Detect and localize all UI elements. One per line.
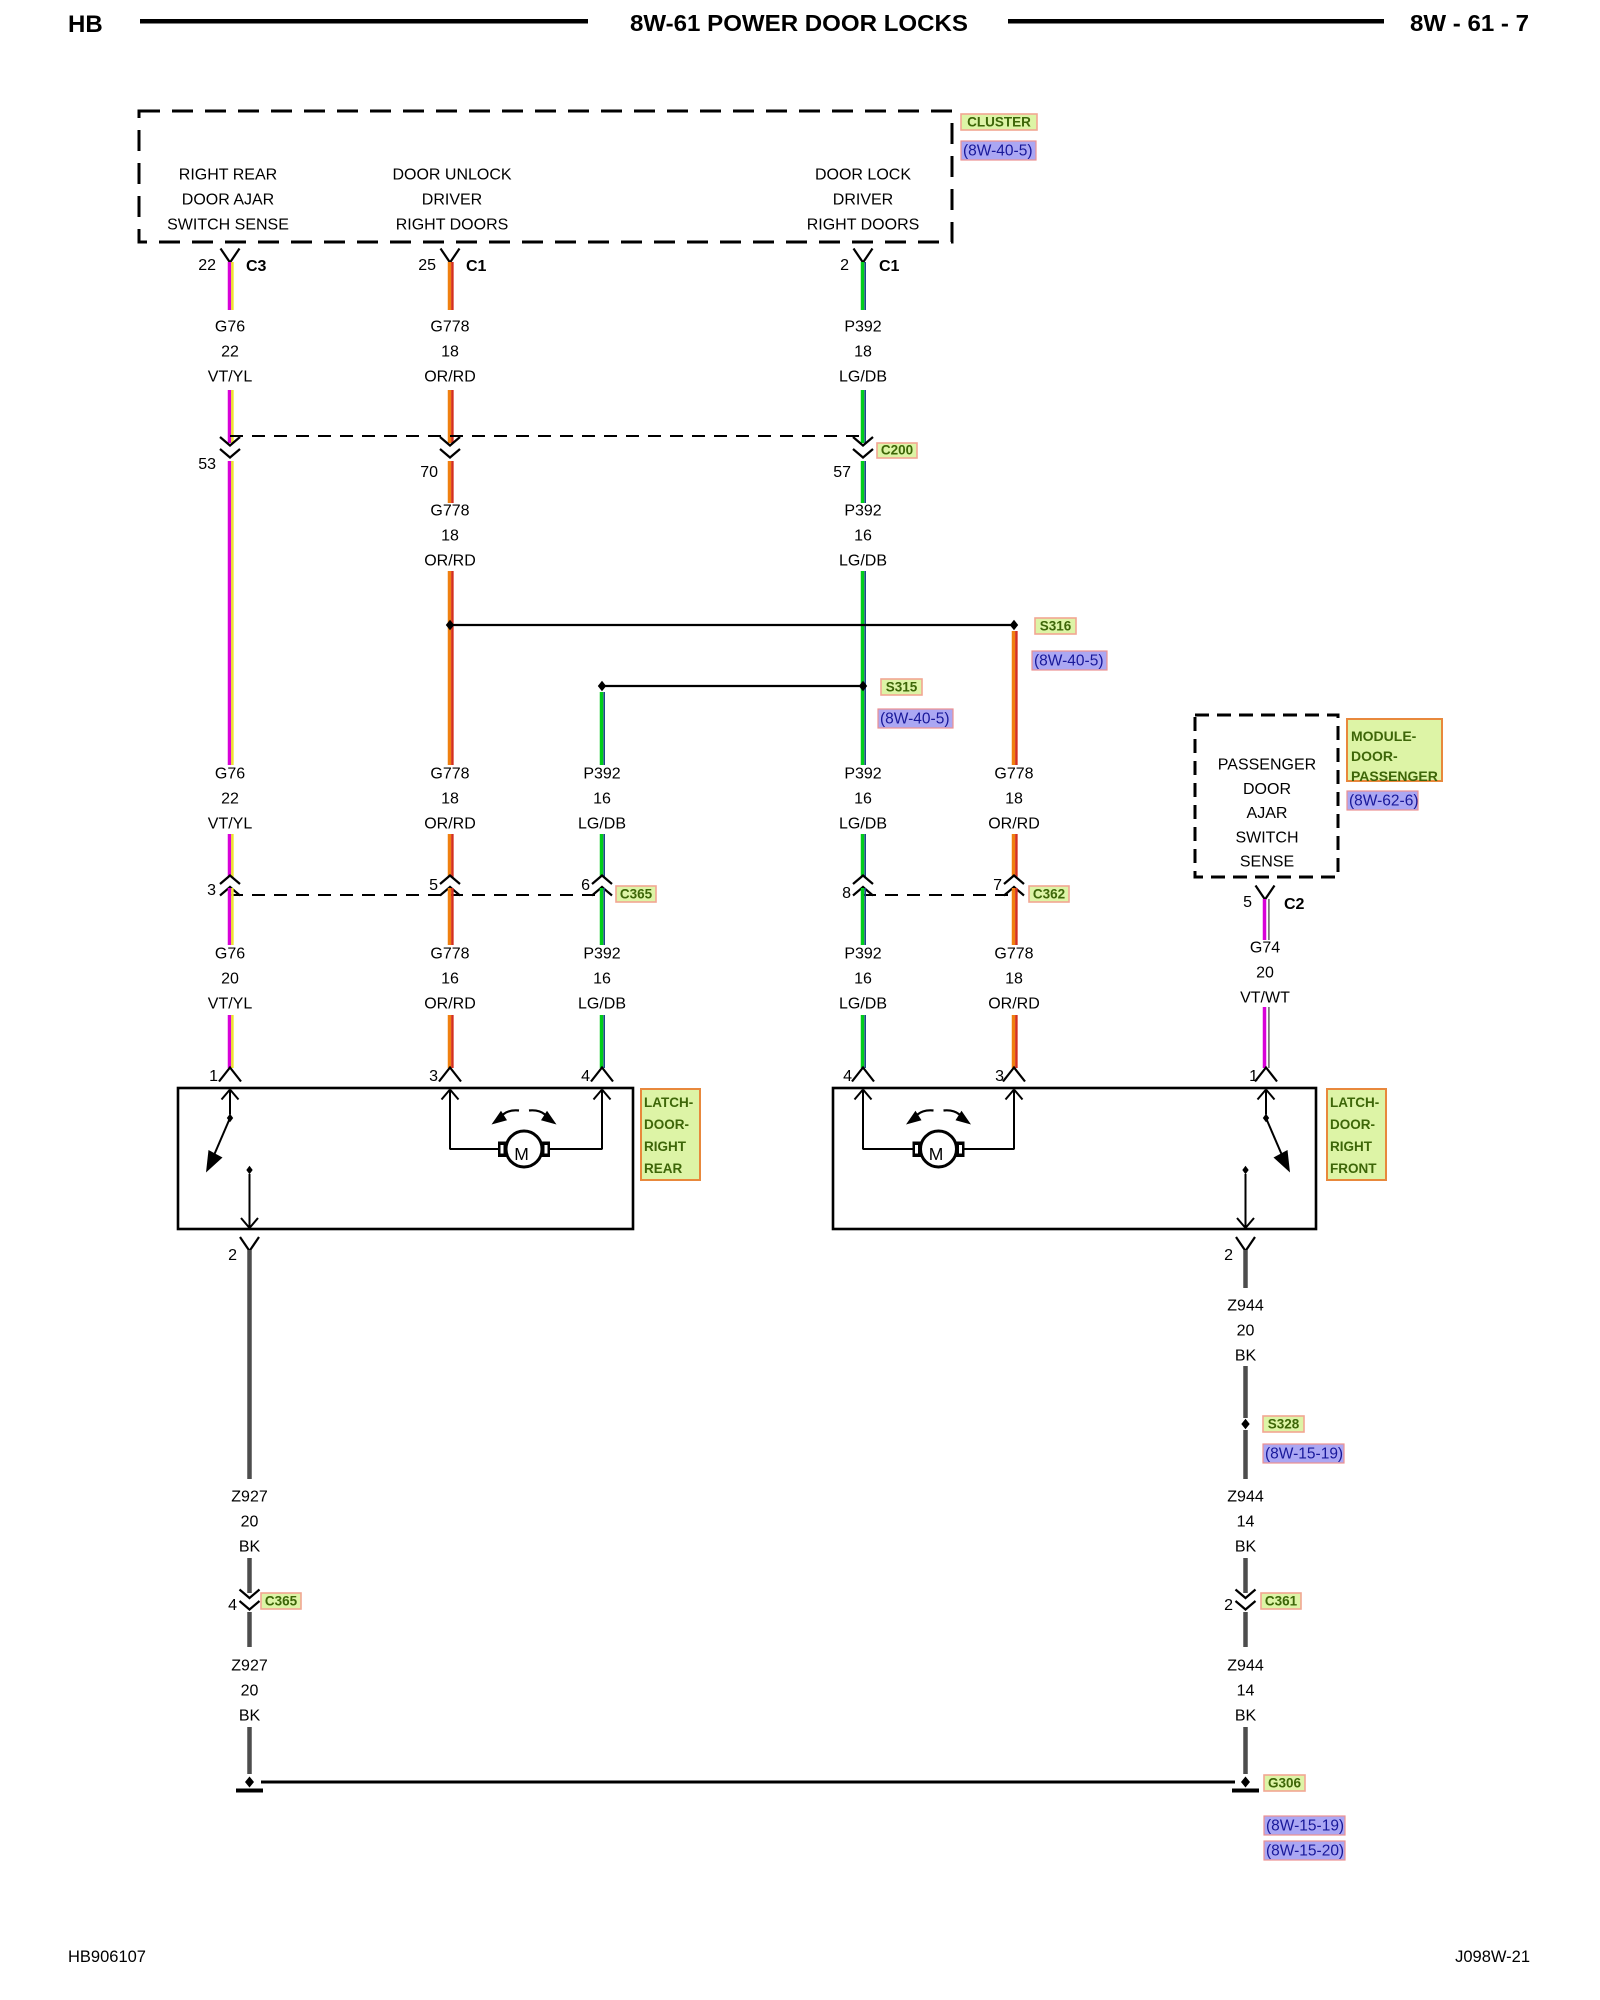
latch front pin 4 symbol bbox=[843, 1068, 874, 1086]
svg-text:OR/RD: OR/RD bbox=[424, 369, 476, 386]
wire G778 OR/RD to latch pin 3 right bbox=[1014, 1015, 1017, 1068]
wire G778 OR/RD below C365 bbox=[450, 888, 453, 945]
svg-text:Z944: Z944 bbox=[1227, 1658, 1264, 1675]
svg-text:S315: S315 bbox=[886, 680, 918, 695]
svg-text:C3: C3 bbox=[246, 258, 267, 275]
footer sheet code HB906107 bbox=[68, 1948, 146, 1966]
svg-text:C2: C2 bbox=[1284, 896, 1305, 913]
wire P392 LG/DB below C365 bbox=[602, 888, 605, 945]
svg-text:8W-61 POWER DOOR LOCKS: 8W-61 POWER DOOR LOCKS bbox=[630, 10, 968, 36]
svg-text:8W - 61 - 7: 8W - 61 - 7 bbox=[1410, 10, 1529, 36]
svg-text:DOOR-: DOOR- bbox=[1330, 1117, 1375, 1132]
connector C361 pin 2 symbol bbox=[1224, 1590, 1255, 1615]
wire label G74 20 VT/WT bbox=[1240, 940, 1290, 1007]
footer drawing number J098W-21 bbox=[1455, 1948, 1530, 1966]
svg-text:3: 3 bbox=[207, 882, 216, 899]
svg-text:S316: S316 bbox=[1040, 619, 1072, 634]
svg-text:J098W-21: J098W-21 bbox=[1455, 1948, 1530, 1966]
wire G778 OR/RD segment to C362 bbox=[1014, 834, 1017, 877]
wire Z944 14 BK to ground bbox=[1243, 1727, 1248, 1774]
splice S316 junction diamond left bbox=[446, 620, 454, 630]
svg-text:(8W-62-6): (8W-62-6) bbox=[1349, 793, 1418, 810]
svg-text:(8W-15-19): (8W-15-19) bbox=[1266, 1818, 1344, 1835]
svg-text:HB906107: HB906107 bbox=[68, 1948, 146, 1966]
wire G76 VT/YL to latch pin 1 bbox=[230, 1015, 233, 1068]
svg-text:G778: G778 bbox=[430, 503, 469, 520]
svg-text:AJAR: AJAR bbox=[1247, 805, 1288, 822]
wire P392 LG/DB segment to C365 bbox=[602, 834, 605, 877]
svg-text:3: 3 bbox=[995, 1068, 1004, 1085]
wire Z944 20 BK from latch front pin 2 bbox=[1243, 1250, 1248, 1288]
wire label Z944 14 BK lower bbox=[1227, 1658, 1264, 1725]
svg-text:RIGHT DOORS: RIGHT DOORS bbox=[396, 217, 509, 234]
component box LATCH-DOOR-RIGHT REAR bbox=[178, 1088, 633, 1229]
connector C362 pin 7 symbol bbox=[993, 876, 1024, 896]
svg-text:PASSENGER: PASSENGER bbox=[1351, 768, 1438, 784]
wire label G778 18 OR/RD row3 branch bbox=[988, 766, 1040, 833]
svg-text:2: 2 bbox=[1224, 1247, 1233, 1264]
label C362 bbox=[1029, 886, 1069, 902]
splice S328 junction diamond bbox=[1241, 1419, 1249, 1429]
svg-text:P392: P392 bbox=[583, 946, 620, 963]
svg-text:M: M bbox=[929, 1144, 944, 1164]
wire G76 22 VT/YL segment from C3 bbox=[230, 262, 233, 310]
label CLUSTER bbox=[961, 114, 1037, 130]
connector C1 pin 25 symbol bbox=[418, 249, 486, 276]
wire label P392 16 LG/DB below C200 bbox=[839, 503, 887, 570]
svg-text:G778: G778 bbox=[430, 319, 469, 336]
latch rear pin 1 symbol bbox=[209, 1068, 241, 1086]
svg-text:20: 20 bbox=[241, 1514, 259, 1531]
splice S315 horizontal bus bbox=[602, 685, 863, 687]
wire label P392 16 LG/DB row4 branch bbox=[578, 946, 626, 1013]
connector C365 pin 3 symbol bbox=[207, 876, 240, 900]
svg-text:25: 25 bbox=[418, 257, 436, 274]
wire label G778 18 OR/RD row3 bbox=[424, 766, 476, 833]
svg-text:SWITCH SENSE: SWITCH SENSE bbox=[167, 217, 289, 234]
svg-text:DRIVER: DRIVER bbox=[422, 192, 482, 209]
wire Z944 14 BK to C361 bbox=[1243, 1558, 1248, 1593]
wire Z944 14 BK below C361 bbox=[1243, 1612, 1248, 1647]
svg-text:20: 20 bbox=[241, 1683, 259, 1700]
component box MODULE-DOOR-PASSENGER (dashed) bbox=[1195, 715, 1338, 877]
svg-text:3: 3 bbox=[429, 1068, 438, 1085]
connector C365 pin 5 symbol bbox=[429, 876, 460, 896]
svg-text:20: 20 bbox=[221, 971, 239, 988]
svg-text:(8W-15-19): (8W-15-19) bbox=[1265, 1446, 1343, 1463]
label (8W-15-19) for S328 bbox=[1263, 1444, 1344, 1463]
wire P392 18 LG/DB segment to C200 bbox=[863, 390, 866, 443]
svg-text:4: 4 bbox=[843, 1068, 852, 1085]
svg-text:M: M bbox=[514, 1144, 529, 1164]
wire G778 OR/RD below C362 bbox=[1014, 888, 1017, 945]
svg-text:16: 16 bbox=[854, 791, 872, 808]
svg-text:P392: P392 bbox=[583, 766, 620, 783]
svg-text:OR/RD: OR/RD bbox=[988, 816, 1040, 833]
svg-text:HB: HB bbox=[68, 11, 103, 38]
wire G74 VT/WT from C2 bbox=[1265, 899, 1269, 940]
label (8W-15-19) for G306 bbox=[1264, 1816, 1345, 1835]
wire label P392 16 LG/DB row4 main bbox=[839, 946, 887, 1013]
svg-text:SWITCH: SWITCH bbox=[1235, 829, 1298, 846]
svg-text:S328: S328 bbox=[1268, 1417, 1300, 1432]
svg-text:5: 5 bbox=[429, 877, 438, 894]
wire P392 18 LG/DB segment from C1 bbox=[863, 262, 866, 310]
svg-text:LATCH-: LATCH- bbox=[1330, 1095, 1379, 1110]
svg-text:LG/DB: LG/DB bbox=[578, 816, 626, 833]
wire G76 VT/YL below C365 bbox=[230, 888, 233, 945]
svg-text:DOOR-: DOOR- bbox=[1351, 748, 1398, 764]
wire label G778 18 OR/RD below C200 bbox=[424, 503, 476, 570]
latch rear pin 4 symbol bbox=[581, 1068, 613, 1086]
svg-text:CLUSTER: CLUSTER bbox=[967, 115, 1031, 130]
svg-text:22: 22 bbox=[198, 257, 216, 274]
svg-text:P392: P392 bbox=[844, 766, 881, 783]
wire P392 LG/DB to latch pin 4 right bbox=[863, 1015, 866, 1068]
wire Z927 20 BK to ground bbox=[247, 1727, 252, 1774]
svg-text:P392: P392 bbox=[844, 503, 881, 520]
svg-text:G76: G76 bbox=[215, 766, 245, 783]
svg-text:P392: P392 bbox=[844, 946, 881, 963]
header rule right bbox=[1008, 19, 1384, 24]
wire P392 16 LG/DB segment below C200 bbox=[863, 461, 866, 503]
connector C365 dashed line bbox=[230, 894, 602, 896]
svg-text:DRIVER: DRIVER bbox=[833, 192, 893, 209]
connector C362 pin 8 symbol bbox=[842, 876, 873, 903]
wire G778 18 OR/RD segment from C1 bbox=[450, 262, 453, 310]
splice S316 horizontal bus bbox=[450, 624, 1014, 626]
svg-text:5: 5 bbox=[1243, 894, 1252, 911]
cluster pin function text DOOR UNLOCK DRIVER RIGHT DOORS bbox=[392, 167, 511, 234]
svg-text:14: 14 bbox=[1237, 1514, 1255, 1531]
svg-text:1: 1 bbox=[1249, 1068, 1258, 1085]
svg-text:REAR: REAR bbox=[644, 1161, 683, 1176]
svg-text:18: 18 bbox=[1005, 791, 1023, 808]
svg-text:G778: G778 bbox=[430, 766, 469, 783]
latch front pin 1 symbol bbox=[1249, 1068, 1277, 1086]
svg-text:C1: C1 bbox=[466, 258, 487, 275]
wire G76 VT/YL segment to C365 bbox=[230, 834, 233, 877]
label C365 bottom bbox=[261, 1593, 301, 1609]
component box LATCH-DOOR-RIGHT FRONT bbox=[833, 1088, 1316, 1229]
svg-text:G778: G778 bbox=[994, 766, 1033, 783]
wire P392 LG/DB segment to C362 bbox=[863, 834, 866, 877]
latch rear pin 2 symbol bbox=[228, 1237, 259, 1264]
svg-text:FRONT: FRONT bbox=[1330, 1161, 1377, 1176]
svg-text:2: 2 bbox=[840, 257, 849, 274]
svg-text:BK: BK bbox=[1235, 1708, 1257, 1725]
svg-text:DOOR AJAR: DOOR AJAR bbox=[182, 192, 274, 209]
wire label G76 22 VT/YL row3 bbox=[208, 766, 253, 833]
svg-text:C1: C1 bbox=[879, 258, 900, 275]
wire label G778 18 OR/RD bbox=[424, 319, 476, 386]
cluster pin function text RIGHT REAR DOOR AJAR SWITCH SENSE bbox=[167, 167, 289, 234]
connector C200 pin 57 symbol bbox=[833, 437, 873, 481]
svg-text:VT/YL: VT/YL bbox=[208, 369, 253, 386]
svg-text:70: 70 bbox=[420, 464, 438, 481]
svg-text:16: 16 bbox=[854, 528, 872, 545]
svg-text:OR/RD: OR/RD bbox=[988, 996, 1040, 1013]
ground junction diamond left bbox=[245, 1777, 254, 1788]
svg-text:G778: G778 bbox=[430, 946, 469, 963]
latch front pin 2 symbol bbox=[1224, 1237, 1255, 1264]
svg-text:DOOR LOCK: DOOR LOCK bbox=[815, 167, 911, 184]
connector C1 pin 2 symbol bbox=[840, 249, 899, 276]
motor M inside latch front bbox=[855, 1090, 1023, 1168]
label LATCH-DOOR-RIGHT REAR bbox=[641, 1089, 700, 1180]
wire Z944 14 BK below S328 bbox=[1243, 1430, 1248, 1479]
switch inside latch front (pin 1 to pin 2) bbox=[1237, 1090, 1290, 1229]
label (8W-40-5) for S316 bbox=[1032, 651, 1107, 670]
wire label P392 16 LG/DB row3 branch bbox=[578, 766, 626, 833]
svg-text:18: 18 bbox=[441, 791, 459, 808]
wire label Z944 14 BK bbox=[1227, 1489, 1264, 1556]
svg-text:OR/RD: OR/RD bbox=[424, 996, 476, 1013]
svg-text:VT/WT: VT/WT bbox=[1240, 990, 1290, 1007]
header title 8W-61 POWER DOOR LOCKS bbox=[630, 10, 968, 36]
connector C365 pin 4 symbol bbox=[228, 1590, 259, 1615]
label S316 bbox=[1035, 618, 1076, 634]
svg-text:C362: C362 bbox=[1033, 887, 1065, 902]
wire Z927 20 BK to C365 bbox=[247, 1558, 252, 1593]
connector C2 pin 5 symbol bbox=[1243, 886, 1304, 914]
svg-text:BK: BK bbox=[239, 1708, 261, 1725]
svg-text:LATCH-: LATCH- bbox=[644, 1095, 693, 1110]
svg-text:22: 22 bbox=[221, 791, 239, 808]
label (8W-15-20) for G306 bbox=[1264, 1841, 1345, 1860]
splice S316 junction diamond right bbox=[1010, 620, 1018, 630]
label S328 bbox=[1263, 1416, 1304, 1432]
svg-text:(8W-40-5): (8W-40-5) bbox=[963, 143, 1032, 160]
svg-text:(8W-15-20): (8W-15-20) bbox=[1266, 1843, 1344, 1860]
wire G74 VT/WT to latch pin 1 right bbox=[1265, 1007, 1269, 1068]
svg-text:(8W-40-5): (8W-40-5) bbox=[1034, 653, 1103, 670]
svg-text:18: 18 bbox=[441, 344, 459, 361]
label LATCH-DOOR-RIGHT FRONT bbox=[1327, 1089, 1386, 1180]
svg-text:DOOR UNLOCK: DOOR UNLOCK bbox=[392, 167, 511, 184]
label G306 bbox=[1264, 1775, 1305, 1791]
wire label P392 18 LG/DB bbox=[839, 319, 887, 386]
label S315 bbox=[881, 679, 922, 695]
wire P392 16 LG/DB branch from S315 bbox=[602, 692, 605, 765]
wire G76 22 VT/YL segment to C200 bbox=[230, 390, 233, 443]
svg-text:OR/RD: OR/RD bbox=[424, 553, 476, 570]
svg-text:BK: BK bbox=[239, 1539, 261, 1556]
svg-text:BK: BK bbox=[1235, 1539, 1257, 1556]
svg-text:BK: BK bbox=[1235, 1348, 1257, 1365]
ground symbol left bbox=[236, 1789, 263, 1793]
splice S315 junction diamond right bbox=[859, 681, 867, 691]
svg-text:1: 1 bbox=[209, 1068, 218, 1085]
svg-text:G76: G76 bbox=[215, 319, 245, 336]
svg-text:20: 20 bbox=[1256, 965, 1274, 982]
svg-text:VT/YL: VT/YL bbox=[208, 996, 253, 1013]
wire G778 18 OR/RD segment to C200 bbox=[450, 390, 453, 443]
wire label G76 20 VT/YL row4 bbox=[208, 946, 253, 1013]
latch front pin 3 symbol bbox=[995, 1068, 1025, 1086]
svg-text:4: 4 bbox=[228, 1597, 237, 1614]
svg-text:PASSENGER: PASSENGER bbox=[1218, 757, 1316, 774]
module pin function text PASSENGER DOOR AJAR SWITCH SENSE bbox=[1218, 757, 1316, 871]
ground bus wire bbox=[261, 1781, 1235, 1784]
svg-text:RIGHT: RIGHT bbox=[644, 1139, 687, 1154]
svg-text:22: 22 bbox=[221, 344, 239, 361]
wire Z927 20 BK from latch rear pin 2 bbox=[247, 1250, 252, 1479]
svg-text:Z927: Z927 bbox=[231, 1489, 268, 1506]
connector C362 dashed line bbox=[863, 894, 1014, 896]
svg-text:C200: C200 bbox=[881, 443, 913, 458]
wire label Z927 20 BK bbox=[231, 1489, 268, 1556]
wire Z944 20 BK to S328 bbox=[1243, 1366, 1248, 1418]
connector C3 pin 22 symbol bbox=[198, 249, 266, 276]
svg-text:2: 2 bbox=[228, 1247, 237, 1264]
wire G778 OR/RD segment to C365 bbox=[450, 834, 453, 877]
connector C200 pin 70 symbol bbox=[420, 437, 460, 481]
svg-text:C365: C365 bbox=[265, 1594, 298, 1609]
svg-text:Z944: Z944 bbox=[1227, 1298, 1264, 1315]
svg-text:OR/RD: OR/RD bbox=[424, 816, 476, 833]
cluster pin function text DOOR LOCK DRIVER RIGHT DOORS bbox=[807, 167, 920, 234]
splice S315 junction diamond left bbox=[598, 681, 606, 691]
wire label G76 22 VT/YL bbox=[208, 319, 253, 386]
label (8W-40-5) for CLUSTER bbox=[961, 141, 1036, 160]
wire P392 16 LG/DB segment through S315 bbox=[863, 571, 866, 765]
svg-text:SENSE: SENSE bbox=[1240, 854, 1294, 871]
svg-text:18: 18 bbox=[854, 344, 872, 361]
svg-text:RIGHT DOORS: RIGHT DOORS bbox=[807, 217, 920, 234]
svg-text:Z944: Z944 bbox=[1227, 1489, 1264, 1506]
label C361 bbox=[1261, 1593, 1301, 1609]
svg-text:16: 16 bbox=[854, 971, 872, 988]
svg-text:18: 18 bbox=[441, 528, 459, 545]
motor M inside latch rear bbox=[442, 1090, 611, 1168]
svg-text:P392: P392 bbox=[844, 319, 881, 336]
svg-text:G306: G306 bbox=[1268, 1776, 1302, 1791]
connector C200 dashed line bbox=[230, 435, 863, 437]
svg-text:7: 7 bbox=[993, 877, 1002, 894]
svg-text:57: 57 bbox=[833, 464, 851, 481]
svg-text:16: 16 bbox=[593, 971, 611, 988]
svg-text:C361: C361 bbox=[1265, 1594, 1298, 1609]
wire G778 18 OR/RD segment below C200 bbox=[450, 461, 453, 503]
ground junction diamond right bbox=[1241, 1777, 1250, 1788]
wire Z927 20 BK below C365 bbox=[247, 1612, 252, 1647]
label (8W-40-5) for S315 bbox=[878, 709, 953, 728]
latch rear pin 3 symbol bbox=[429, 1068, 461, 1086]
label C200 bbox=[877, 443, 917, 459]
svg-text:G74: G74 bbox=[1250, 940, 1280, 957]
svg-text:G76: G76 bbox=[215, 946, 245, 963]
wire G778 18 OR/RD branch from S316 bbox=[1014, 631, 1017, 765]
svg-text:16: 16 bbox=[593, 791, 611, 808]
svg-text:LG/DB: LG/DB bbox=[839, 996, 887, 1013]
connector C200 pin 53 symbol bbox=[198, 437, 240, 473]
wire label P392 16 LG/DB row3 main bbox=[839, 766, 887, 833]
wire P392 LG/DB to latch pin 4 bbox=[602, 1015, 605, 1068]
svg-text:Z927: Z927 bbox=[231, 1658, 268, 1675]
wire G778 18 OR/RD segment through S316 bbox=[450, 571, 453, 765]
svg-text:DOOR: DOOR bbox=[1243, 781, 1291, 798]
svg-text:DOOR-: DOOR- bbox=[644, 1117, 689, 1132]
component box CLUSTER (dashed) bbox=[139, 111, 952, 242]
svg-text:VT/YL: VT/YL bbox=[208, 816, 253, 833]
switch inside latch rear (pin 1 to pin 2) bbox=[206, 1090, 258, 1229]
wire label Z944 20 BK bbox=[1227, 1298, 1264, 1365]
label MODULE-DOOR-PASSENGER bbox=[1347, 719, 1442, 784]
wire G76 22 VT/YL long segment below C200 bbox=[230, 461, 233, 765]
wire label G778 16 OR/RD row4 bbox=[424, 946, 476, 1013]
svg-text:14: 14 bbox=[1237, 1683, 1255, 1700]
label C365 bbox=[616, 886, 656, 902]
wire P392 LG/DB below C362 bbox=[863, 888, 866, 945]
svg-text:LG/DB: LG/DB bbox=[578, 996, 626, 1013]
header page number 8W - 61 - 7 bbox=[1410, 10, 1529, 36]
svg-text:RIGHT REAR: RIGHT REAR bbox=[179, 167, 277, 184]
wire label G778 18 OR/RD row4 branch bbox=[988, 946, 1040, 1013]
svg-text:C365: C365 bbox=[620, 887, 653, 902]
wire label Z927 20 BK lower bbox=[231, 1658, 268, 1725]
svg-text:LG/DB: LG/DB bbox=[839, 816, 887, 833]
svg-text:G778: G778 bbox=[994, 946, 1033, 963]
svg-text:8: 8 bbox=[842, 885, 851, 902]
header rule left bbox=[140, 19, 588, 24]
svg-text:16: 16 bbox=[441, 971, 459, 988]
svg-text:4: 4 bbox=[581, 1068, 590, 1085]
svg-text:RIGHT: RIGHT bbox=[1330, 1139, 1373, 1154]
svg-text:LG/DB: LG/DB bbox=[839, 553, 887, 570]
header page code HB bbox=[68, 11, 103, 38]
label (8W-62-6) for module bbox=[1347, 791, 1418, 810]
svg-text:53: 53 bbox=[198, 456, 216, 473]
svg-text:20: 20 bbox=[1237, 1323, 1255, 1340]
wire G778 OR/RD to latch pin 3 bbox=[450, 1015, 453, 1068]
svg-text:6: 6 bbox=[581, 877, 590, 894]
ground symbol right G306 bbox=[1232, 1789, 1259, 1793]
svg-text:MODULE-: MODULE- bbox=[1351, 728, 1417, 744]
svg-text:2: 2 bbox=[1224, 1597, 1233, 1614]
svg-text:18: 18 bbox=[1005, 971, 1023, 988]
svg-text:(8W-40-5): (8W-40-5) bbox=[880, 711, 949, 728]
connector C365 pin 6 symbol bbox=[581, 876, 612, 896]
svg-text:LG/DB: LG/DB bbox=[839, 369, 887, 386]
